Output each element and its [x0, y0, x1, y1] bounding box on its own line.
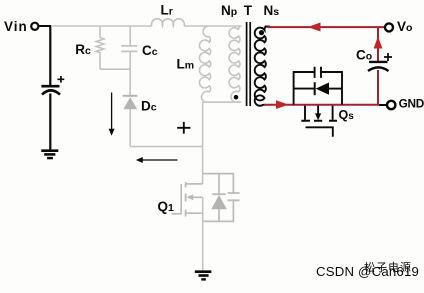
MOSFET Q1 body box — [203, 174, 234, 222]
label T — [244, 3, 253, 18]
label Rc — [75, 42, 91, 57]
svg-text:Vin: Vin — [4, 19, 28, 34]
label Lr — [161, 3, 173, 18]
MOSFET Qs channel — [301, 106, 337, 121]
wire drain vertical upper — [202, 102, 204, 184]
svg-text:Qs: Qs — [339, 108, 355, 122]
current arrow down — [109, 93, 115, 136]
resistor Rc — [96, 26, 104, 69]
current arrow left — [136, 157, 178, 163]
watermark CSDN — [316, 264, 419, 279]
label Np — [221, 3, 237, 18]
label Lm — [177, 57, 195, 72]
label Dc — [141, 99, 157, 114]
inductor Lm — [199, 26, 210, 102]
svg-text:CSDN @Can619: CSDN @Can619 — [316, 264, 419, 279]
capacitor Qs Coss — [315, 67, 321, 78]
MOSFET Qs gate — [306, 127, 333, 137]
wire Vin stub — [39, 25, 52, 27]
wire Rc-Cc joint — [100, 68, 130, 70]
svg-text:Np: Np — [221, 3, 237, 18]
capacitor Co — [368, 53, 392, 71]
wire GND stub black — [379, 104, 387, 106]
wire source vertical lower — [202, 197, 204, 270]
terminal GND — [387, 101, 395, 109]
terminal Vin — [31, 23, 38, 30]
transformer core — [247, 22, 251, 106]
MOSFET Q1 channel — [186, 182, 203, 216]
label Cc — [142, 43, 158, 58]
svg-text:Co: Co — [356, 48, 372, 63]
svg-text:Q1: Q1 — [158, 199, 175, 214]
diode Dc — [123, 96, 138, 147]
capacitor Q1 Coss — [228, 193, 240, 200]
wire top rail gray left — [51, 25, 152, 27]
wire output vertical red lower — [377, 70, 379, 105]
wire bottom gray rail — [203, 101, 241, 103]
capacitor Cin — [41, 76, 64, 95]
wire secondary bottom red — [264, 104, 379, 106]
watermark Chinese — [364, 260, 412, 274]
polarity dot Np — [234, 95, 239, 100]
svg-text:GND: GND — [399, 97, 424, 111]
current arrow red left — [308, 23, 321, 32]
label Q1 — [158, 199, 175, 214]
label GND — [399, 97, 424, 111]
svg-text:Ns: Ns — [264, 3, 280, 18]
transformer winding Np — [229, 26, 242, 102]
svg-text:Dc: Dc — [141, 99, 157, 114]
transformer winding Ns — [255, 27, 270, 106]
label Co — [356, 48, 372, 63]
wire input vertical bottom — [49, 94, 51, 150]
wire output vertical red upper — [377, 27, 379, 61]
current arrow red up — [374, 36, 383, 48]
current arrow red right — [276, 100, 289, 109]
plus sign node — [177, 122, 190, 134]
ground bottom — [195, 272, 212, 280]
wire Dc to drain rail — [130, 146, 203, 148]
label Qs — [339, 108, 355, 122]
label Vo — [397, 19, 412, 34]
label Vin — [4, 19, 28, 34]
inductor Lr — [152, 19, 185, 26]
svg-text:Lr: Lr — [161, 3, 173, 18]
diode Q1 body — [211, 174, 227, 222]
terminal Vo — [385, 23, 393, 31]
svg-text:Cc: Cc — [142, 43, 158, 58]
capacitor Cc — [121, 26, 137, 96]
polarity dot Ns — [259, 30, 264, 35]
ground left — [41, 151, 58, 158]
MOSFET Q1 gate — [171, 184, 181, 214]
svg-text:Lm: Lm — [177, 57, 195, 72]
wire secondary top red — [268, 26, 387, 28]
svg-text:T: T — [244, 3, 253, 18]
wire top rail gray right — [184, 25, 240, 27]
MOSFET Qs body box — [294, 72, 342, 105]
wire input vertical top — [49, 26, 51, 85]
label Ns — [264, 3, 280, 18]
svg-text:Rc: Rc — [75, 42, 91, 57]
svg-text:Vo: Vo — [397, 19, 412, 34]
diode Qs body — [294, 82, 342, 95]
